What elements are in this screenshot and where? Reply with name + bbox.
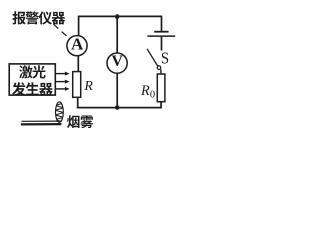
wire: resistor R0 to bottom wire (160, 102, 162, 109)
label S (161, 49, 169, 67)
wire: bottom horizontal (77, 107, 161, 109)
switch S (open blade and pivot circle) (147, 49, 161, 70)
node: top junction dot (115, 14, 120, 19)
resistor R (photoresistor) (73, 72, 81, 98)
label 报警仪器 (alarm instrument) (12, 11, 65, 24)
label 发生器 (generator) (12, 82, 53, 95)
resistor R0 (157, 74, 165, 102)
wire: battery to switch (161, 36, 163, 51)
ammeter A (67, 35, 87, 56)
leader line (dashed) from label to ammeter (54, 24, 70, 38)
laser generator box (9, 64, 55, 95)
label R0 (140, 83, 155, 101)
svg-text:R: R (83, 79, 93, 94)
laser beam arrow 1 (55, 72, 69, 76)
wire: switch to resistor R0 (160, 70, 162, 75)
platform (table top) (21, 121, 62, 125)
svg-text:0: 0 (150, 89, 155, 100)
wire: top horizontal (79, 15, 162, 17)
laser beam arrow 2 (55, 80, 69, 84)
wire: left branch down to ammeter (78, 16, 80, 36)
voltmeter V (107, 53, 127, 73)
svg-text:R: R (140, 83, 150, 99)
svg-text:S: S (161, 49, 169, 67)
svg-text:A: A (71, 35, 84, 54)
wire: middle branch down to voltmeter (116, 16, 118, 53)
wire: resistor R to bottom wire (77, 97, 79, 108)
wire: ammeter to resistor R (77, 55, 79, 72)
label 烟雾 (smoke) (67, 115, 93, 128)
wire: voltmeter to bottom wire (116, 73, 118, 108)
label 激光 (laser) (19, 65, 45, 78)
battery cell (147, 32, 175, 36)
svg-text:V: V (111, 53, 123, 70)
node: bottom junction dot (115, 105, 120, 110)
wire: right branch down to battery (161, 16, 163, 31)
laser beam arrow 3 (55, 87, 69, 91)
